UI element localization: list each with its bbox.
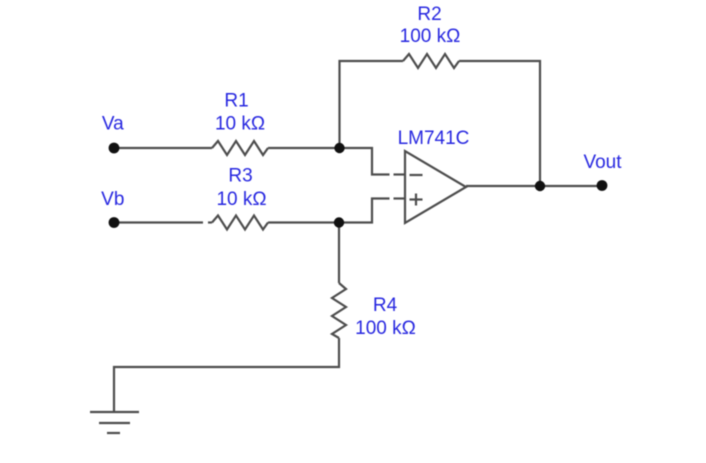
wire R3 to node B xyxy=(268,221,340,223)
svg-text:100 kΩ: 100 kΩ xyxy=(400,26,461,47)
wire node A up to R2 left xyxy=(340,61,404,148)
svg-text:Vout: Vout xyxy=(583,152,622,173)
resistor R2 xyxy=(403,54,459,68)
op-amp plus sign vertical xyxy=(415,194,417,206)
wire segment before R3 xyxy=(208,221,212,223)
wire Va to R1 xyxy=(114,147,212,149)
svg-text:R2: R2 xyxy=(417,4,441,25)
svg-text:R4: R4 xyxy=(373,295,398,316)
ground bar 3 xyxy=(107,432,120,434)
wire op-amp output to Vout xyxy=(466,185,602,187)
junction output node dot xyxy=(535,181,545,191)
svg-text:10 kΩ: 10 kΩ xyxy=(216,189,266,210)
svg-text:10 kΩ: 10 kΩ xyxy=(215,114,265,135)
wire R1 to node A xyxy=(268,147,340,149)
junction node B dot xyxy=(334,217,344,227)
svg-text:Va: Va xyxy=(102,114,124,135)
wire node B down to R4 xyxy=(338,223,340,284)
svg-text:LM741C: LM741C xyxy=(398,128,470,149)
svg-text:R1: R1 xyxy=(224,91,248,112)
pin stub inverting input xyxy=(394,173,406,175)
op-amp U1 triangle xyxy=(405,151,466,223)
wire R2 right down to output node xyxy=(459,61,540,186)
terminal dot Vout xyxy=(597,180,608,191)
wire R4 to ground run xyxy=(114,338,339,411)
resistor R3 xyxy=(212,216,268,230)
svg-text:R3: R3 xyxy=(228,166,252,187)
terminal dot Vb xyxy=(109,217,120,228)
op-amp minus sign xyxy=(410,174,423,176)
op-amp plus sign horizontal xyxy=(410,198,423,200)
terminal dot Va xyxy=(109,143,120,154)
svg-text:Vb: Vb xyxy=(101,189,124,210)
pin stub non-inverting input xyxy=(394,197,406,199)
resistor R4 xyxy=(332,283,346,338)
ground bar 2 xyxy=(99,422,130,424)
wire node B to non-inverting input jog xyxy=(340,199,390,223)
wire Vb to R3 (with gap) xyxy=(114,221,203,223)
wire node A to inverting input jog xyxy=(340,148,390,175)
junction node A dot xyxy=(334,143,344,153)
svg-text:100 kΩ: 100 kΩ xyxy=(355,318,416,339)
ground bar 1 xyxy=(90,411,139,413)
resistor R1 xyxy=(212,141,268,155)
